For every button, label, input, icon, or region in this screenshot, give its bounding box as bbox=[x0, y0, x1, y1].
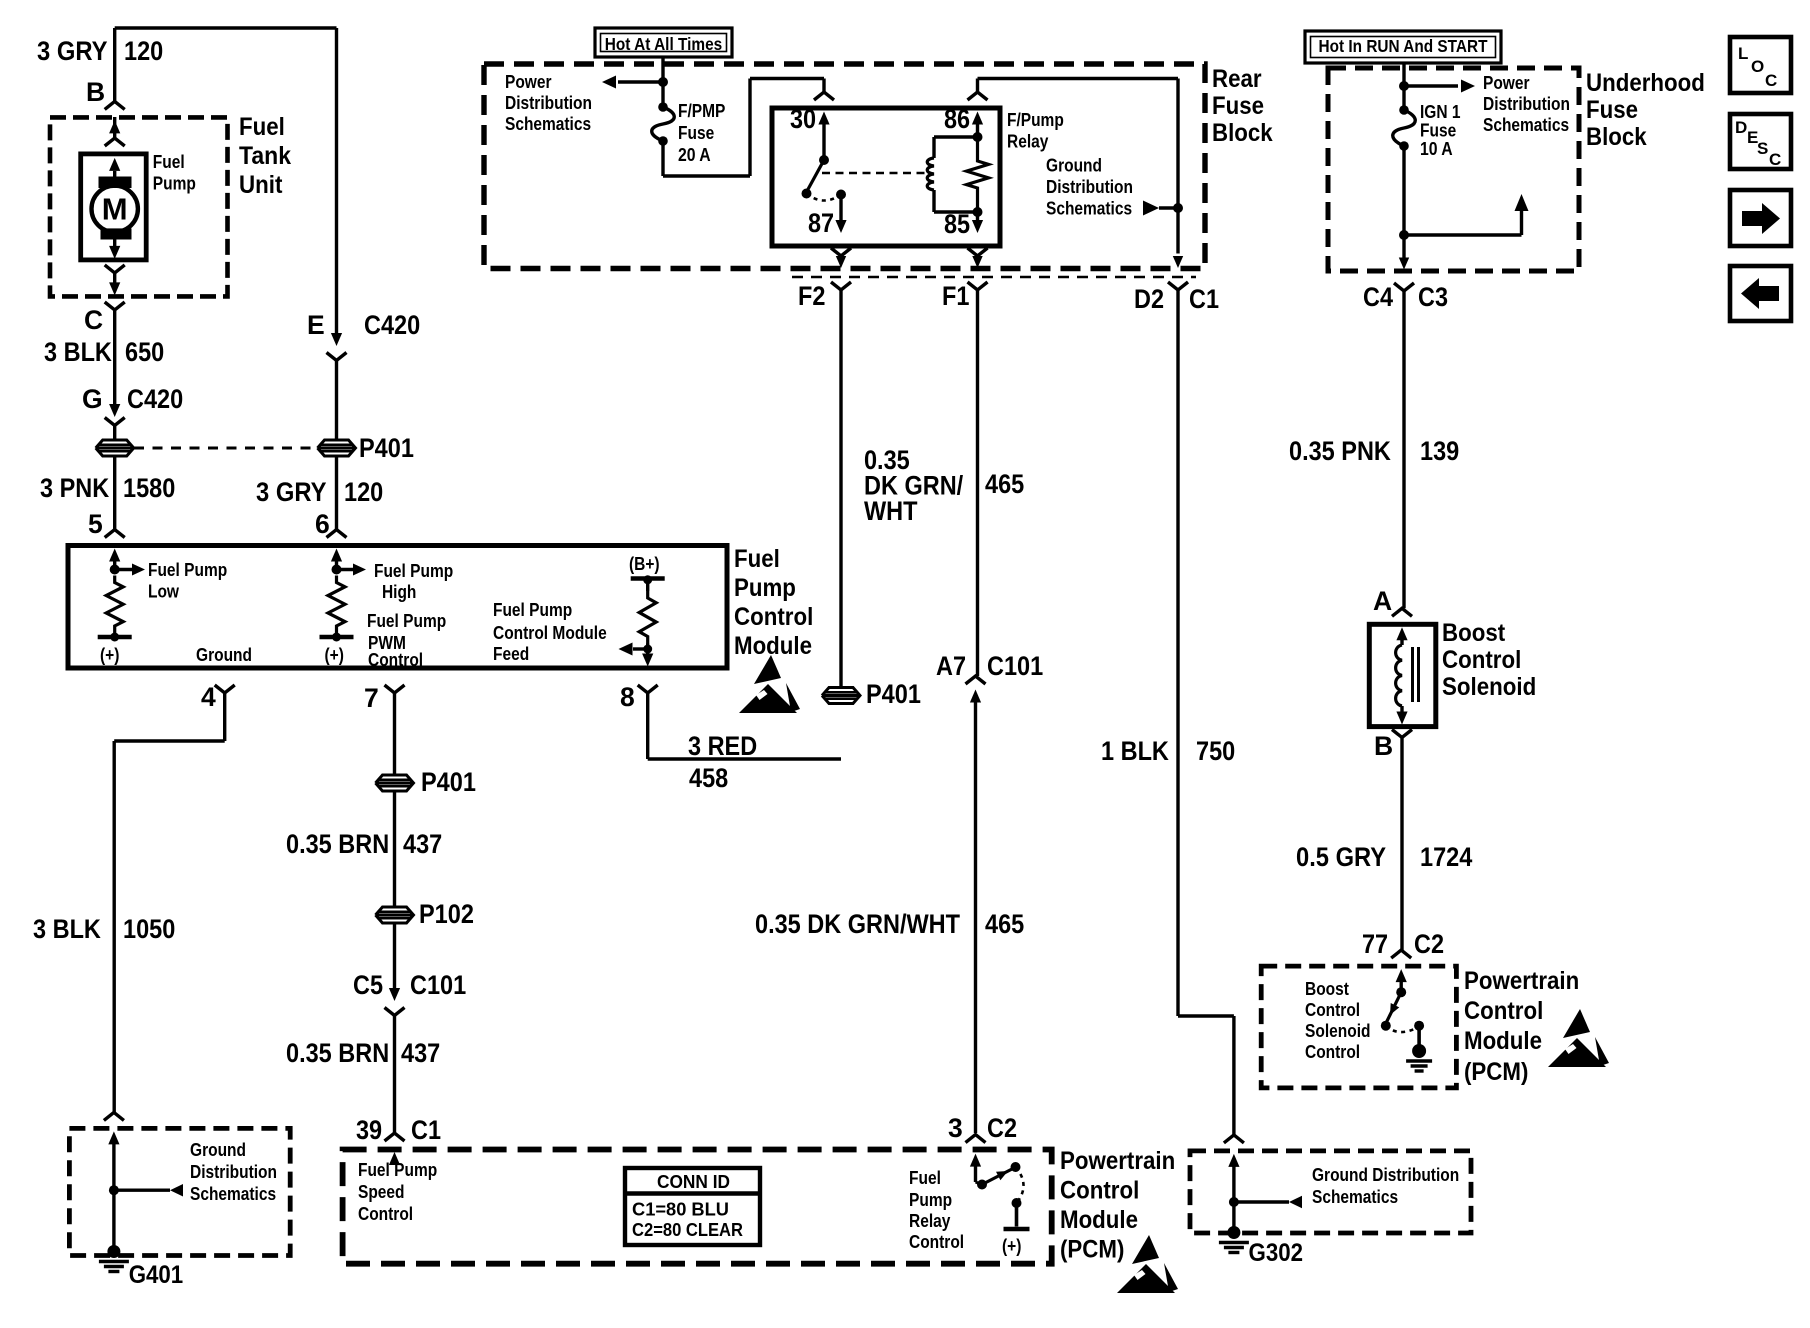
svg-text:O: O bbox=[1751, 57, 1764, 76]
svg-text:C1: C1 bbox=[1189, 284, 1219, 314]
svg-text:Module: Module bbox=[1060, 1206, 1138, 1234]
svg-text:F2: F2 bbox=[798, 281, 825, 311]
svg-text:G401: G401 bbox=[129, 1261, 184, 1289]
svg-text:A: A bbox=[1373, 586, 1392, 616]
svg-text:39: 39 bbox=[356, 1115, 382, 1145]
svg-text:Power: Power bbox=[1483, 72, 1530, 93]
svg-text:20 A: 20 A bbox=[678, 144, 711, 165]
svg-text:458: 458 bbox=[689, 763, 728, 793]
svg-text:Control: Control bbox=[368, 649, 423, 670]
svg-text:(PCM): (PCM) bbox=[1060, 1236, 1124, 1264]
svg-text:0.35 DK GRN/WHT: 0.35 DK GRN/WHT bbox=[755, 909, 960, 939]
svg-text:4: 4 bbox=[201, 682, 216, 712]
svg-text:Relay: Relay bbox=[909, 1210, 951, 1231]
svg-text:30: 30 bbox=[790, 104, 816, 134]
svg-text:86: 86 bbox=[944, 104, 970, 134]
svg-text:Boost: Boost bbox=[1442, 619, 1506, 647]
svg-text:C: C bbox=[84, 305, 103, 335]
svg-text:Solenoid: Solenoid bbox=[1442, 673, 1536, 701]
svg-text:Pump: Pump bbox=[909, 1189, 952, 1210]
svg-text:L: L bbox=[1738, 44, 1748, 63]
svg-text:Fuel: Fuel bbox=[909, 1167, 941, 1188]
svg-text:3 BLK: 3 BLK bbox=[44, 337, 112, 367]
svg-text:Fuel: Fuel bbox=[734, 545, 780, 573]
svg-text:Fuel Pump: Fuel Pump bbox=[367, 610, 446, 631]
svg-text:Ground: Ground bbox=[196, 644, 252, 665]
svg-text:C420: C420 bbox=[364, 310, 420, 340]
svg-text:Relay: Relay bbox=[1007, 131, 1049, 152]
svg-text:C101: C101 bbox=[410, 970, 466, 1000]
svg-text:3 GRY: 3 GRY bbox=[37, 36, 108, 66]
svg-text:Schematics: Schematics bbox=[505, 113, 591, 134]
svg-text:E: E bbox=[307, 310, 325, 340]
svg-text:Fuse: Fuse bbox=[1212, 92, 1264, 120]
svg-text:10 A: 10 A bbox=[1420, 138, 1453, 159]
svg-text:P401: P401 bbox=[359, 433, 414, 463]
svg-text:C2: C2 bbox=[987, 1113, 1017, 1143]
svg-text:1724: 1724 bbox=[1420, 842, 1473, 872]
svg-text:1050: 1050 bbox=[123, 914, 175, 944]
svg-text:120: 120 bbox=[124, 36, 163, 66]
svg-text:437: 437 bbox=[401, 1038, 440, 1068]
svg-text:C2=80 CLEAR: C2=80 CLEAR bbox=[632, 1219, 743, 1240]
svg-text:Ground: Ground bbox=[190, 1139, 246, 1160]
svg-text:3 BLK: 3 BLK bbox=[33, 914, 101, 944]
svg-text:Fuel: Fuel bbox=[153, 151, 185, 172]
svg-text:Rear: Rear bbox=[1212, 65, 1262, 93]
svg-text:F1: F1 bbox=[942, 281, 969, 311]
svg-text:D2: D2 bbox=[1134, 284, 1164, 314]
svg-text:Control: Control bbox=[1305, 1041, 1360, 1062]
svg-text:WHT: WHT bbox=[864, 496, 918, 526]
svg-text:P401: P401 bbox=[421, 767, 476, 797]
svg-text:Control: Control bbox=[358, 1203, 413, 1224]
svg-text:5: 5 bbox=[88, 509, 103, 539]
svg-text:Boost: Boost bbox=[1305, 978, 1349, 999]
svg-text:D: D bbox=[1735, 118, 1747, 137]
svg-text:Hot In RUN And START: Hot In RUN And START bbox=[1319, 36, 1488, 56]
svg-text:Control: Control bbox=[1305, 999, 1360, 1020]
svg-text:Feed: Feed bbox=[493, 643, 529, 664]
svg-text:G302: G302 bbox=[1249, 1239, 1304, 1267]
svg-text:Power: Power bbox=[505, 71, 552, 92]
svg-text:Distribution: Distribution bbox=[1046, 176, 1133, 197]
svg-text:650: 650 bbox=[125, 337, 164, 367]
svg-text:Schematics: Schematics bbox=[1483, 114, 1569, 135]
svg-text:Block: Block bbox=[1212, 119, 1273, 147]
svg-text:750: 750 bbox=[1196, 736, 1235, 766]
svg-text:Speed: Speed bbox=[358, 1181, 405, 1202]
svg-text:Schematics: Schematics bbox=[190, 1183, 276, 1204]
svg-text:Fuse: Fuse bbox=[678, 122, 714, 143]
svg-text:C: C bbox=[1769, 150, 1781, 169]
svg-text:3 GRY: 3 GRY bbox=[256, 477, 327, 507]
svg-text:(+): (+) bbox=[325, 644, 344, 665]
svg-text:139: 139 bbox=[1420, 436, 1459, 466]
svg-text:77: 77 bbox=[1362, 929, 1388, 959]
svg-text:7: 7 bbox=[364, 683, 379, 713]
svg-text:A7: A7 bbox=[936, 651, 966, 681]
svg-text:Unit: Unit bbox=[239, 171, 283, 199]
svg-text:(PCM): (PCM) bbox=[1464, 1058, 1528, 1086]
svg-text:0.35 BRN: 0.35 BRN bbox=[286, 829, 389, 859]
svg-text:Fuel Pump: Fuel Pump bbox=[493, 599, 572, 620]
svg-text:Schematics: Schematics bbox=[1312, 1186, 1398, 1207]
svg-text:Control: Control bbox=[1464, 997, 1543, 1025]
svg-text:465: 465 bbox=[985, 469, 1024, 499]
svg-text:Schematics: Schematics bbox=[1046, 198, 1132, 219]
svg-text:C2: C2 bbox=[1414, 929, 1444, 959]
svg-text:87: 87 bbox=[808, 208, 834, 238]
svg-text:Distribution: Distribution bbox=[505, 92, 592, 113]
svg-text:C3: C3 bbox=[1418, 282, 1448, 312]
svg-text:(+): (+) bbox=[100, 644, 119, 665]
svg-text:Control: Control bbox=[734, 603, 813, 631]
svg-text:437: 437 bbox=[403, 829, 442, 859]
svg-text:C: C bbox=[1765, 71, 1777, 90]
svg-text:C1: C1 bbox=[411, 1115, 441, 1145]
svg-text:C1=80 BLU: C1=80 BLU bbox=[632, 1199, 729, 1220]
svg-text:Block: Block bbox=[1586, 123, 1647, 151]
svg-text:Pump: Pump bbox=[153, 173, 196, 194]
svg-text:Powertrain: Powertrain bbox=[1464, 967, 1579, 995]
svg-text:Fuse: Fuse bbox=[1586, 96, 1638, 124]
svg-text:CONN ID: CONN ID bbox=[657, 1171, 730, 1192]
svg-text:F/PMP: F/PMP bbox=[678, 100, 725, 121]
svg-text:8: 8 bbox=[620, 682, 635, 712]
svg-text:1 BLK: 1 BLK bbox=[1101, 736, 1169, 766]
svg-text:0.35 BRN: 0.35 BRN bbox=[286, 1038, 389, 1068]
svg-text:465: 465 bbox=[985, 909, 1024, 939]
svg-text:3 PNK: 3 PNK bbox=[40, 473, 109, 503]
svg-text:Control: Control bbox=[1060, 1177, 1139, 1205]
svg-text:Distribution: Distribution bbox=[190, 1161, 277, 1182]
svg-text:3: 3 bbox=[948, 1113, 963, 1143]
svg-text:G: G bbox=[82, 384, 103, 414]
svg-text:Fuel: Fuel bbox=[239, 113, 285, 141]
svg-text:Control Module: Control Module bbox=[493, 622, 607, 643]
svg-text:Module: Module bbox=[1464, 1027, 1542, 1055]
svg-text:0.35 PNK: 0.35 PNK bbox=[1289, 436, 1391, 466]
svg-text:Module: Module bbox=[734, 632, 812, 660]
svg-text:Low: Low bbox=[148, 581, 180, 602]
svg-text:1580: 1580 bbox=[123, 473, 175, 503]
svg-text:B: B bbox=[86, 77, 105, 107]
svg-text:P401: P401 bbox=[866, 679, 921, 709]
svg-text:Fuel Pump: Fuel Pump bbox=[358, 1159, 437, 1180]
svg-text:Fuel Pump: Fuel Pump bbox=[148, 559, 227, 580]
svg-text:S: S bbox=[1757, 139, 1768, 158]
svg-text:Ground Distribution: Ground Distribution bbox=[1312, 1164, 1459, 1185]
svg-text:(+): (+) bbox=[1002, 1235, 1021, 1256]
svg-text:High: High bbox=[382, 581, 416, 602]
svg-text:0.5 GRY: 0.5 GRY bbox=[1296, 842, 1386, 872]
svg-text:C5: C5 bbox=[353, 970, 383, 1000]
svg-text:Pump: Pump bbox=[734, 574, 796, 602]
svg-text:B: B bbox=[1374, 731, 1393, 761]
svg-text:Hot At All Times: Hot At All Times bbox=[605, 34, 723, 54]
svg-text:Powertrain: Powertrain bbox=[1060, 1147, 1175, 1175]
svg-text:Control: Control bbox=[909, 1231, 964, 1252]
svg-text:P102: P102 bbox=[419, 899, 474, 929]
svg-text:(B+): (B+) bbox=[629, 553, 660, 574]
svg-text:F/Pump: F/Pump bbox=[1007, 109, 1064, 130]
svg-text:C101: C101 bbox=[987, 651, 1043, 681]
svg-text:Distribution: Distribution bbox=[1483, 93, 1570, 114]
svg-text:120: 120 bbox=[344, 477, 383, 507]
svg-text:C420: C420 bbox=[127, 384, 183, 414]
svg-text:Underhood: Underhood bbox=[1586, 69, 1705, 97]
svg-text:C4: C4 bbox=[1363, 282, 1393, 312]
svg-text:M: M bbox=[102, 192, 128, 227]
svg-text:Tank: Tank bbox=[239, 142, 291, 170]
svg-text:Ground: Ground bbox=[1046, 155, 1102, 176]
svg-text:Solenoid: Solenoid bbox=[1305, 1020, 1371, 1041]
svg-text:Fuel Pump: Fuel Pump bbox=[374, 560, 453, 581]
svg-text:3 RED: 3 RED bbox=[688, 731, 757, 761]
svg-text:Control: Control bbox=[1442, 646, 1521, 674]
